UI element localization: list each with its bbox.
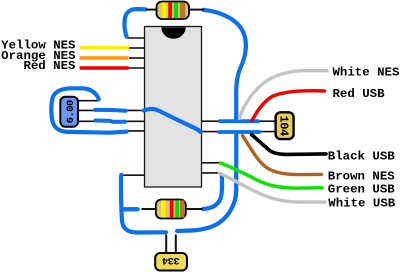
capacitor C2 334 body	[155, 253, 187, 271]
resistor R1 left lead	[146, 9, 157, 11]
label Brown NES	[328, 170, 395, 184]
wire blue node bar lower	[219, 130, 259, 134]
label White NES	[333, 66, 400, 80]
wire blue diagonal across IC	[144, 109, 200, 132]
wire red NES lead	[80, 66, 129, 69]
wire white NES (gray)	[240, 71, 328, 119]
label Red USB	[333, 87, 386, 101]
label White USB	[328, 197, 395, 211]
wire green USB	[221, 163, 323, 188]
svg-text:Red NES: Red NES	[23, 59, 76, 73]
IC right pin to capacitor C1 lower	[201, 131, 276, 133]
wire blue from R1 right lead down right side to node	[204, 10, 246, 121]
svg-text:Red USB: Red USB	[333, 87, 386, 101]
wire blue from R2 right lead up to IC pin	[203, 176, 222, 210]
wire yellow NES lead	[80, 46, 130, 49]
wire blue overlay on run A	[95, 108, 126, 113]
wire blue overlay on run B	[96, 121, 126, 122]
svg-text:6.00: 6.00	[65, 100, 77, 123]
wire blue vertical from node down to bottom loop	[177, 132, 236, 231]
wire red USB	[252, 91, 325, 121]
label Yellow NES	[1, 39, 76, 53]
capacitor C1 104 body	[276, 112, 294, 139]
svg-text:White USB: White USB	[328, 197, 395, 211]
wire blue loop around crystal X1	[51, 88, 126, 132]
IC U1 body	[145, 27, 202, 188]
label Black USB	[328, 150, 395, 164]
wire brown NES	[243, 136, 322, 175]
label Green USB	[328, 182, 395, 196]
resistor R1 right lead	[189, 9, 204, 11]
wire black USB	[252, 135, 327, 155]
capacitor C2 lead left	[165, 235, 167, 254]
wire orange NES lead	[80, 56, 129, 59]
svg-text:Black USB: Black USB	[328, 150, 395, 164]
wire bottom-left IC pin run C	[119, 130, 145, 132]
IC right pin stub green row	[201, 162, 221, 164]
pin 1 stub (IC left, top)	[127, 37, 145, 39]
crystal X1 body 6.00	[60, 97, 78, 127]
pin 2 stub yellow row	[129, 47, 145, 49]
wire blue bottom loop left part up to IC left pin	[121, 175, 166, 233]
svg-text:104: 104	[277, 115, 291, 136]
wire blue branch to R2 left lead	[123, 207, 138, 212]
resistor R2 left lead	[142, 208, 158, 210]
pin 3 stub orange row	[129, 57, 145, 59]
IC right pin stub gray row	[201, 172, 220, 174]
IC U1 pin-1 notch	[161, 27, 185, 39]
resistor R2 body	[156, 200, 186, 219]
capacitor C2 lead right	[175, 235, 177, 254]
label Red NES	[23, 59, 76, 73]
pin 4 stub red row	[129, 67, 146, 69]
svg-text:White NES: White NES	[333, 66, 400, 80]
wire blue from R1 left lead down to pin 1	[125, 9, 146, 37]
wire crystal to IC run A	[78, 109, 145, 111]
wire white USB (gray)	[220, 173, 326, 202]
resistor R2 right lead	[185, 208, 203, 210]
svg-text:Green USB: Green USB	[328, 182, 395, 196]
IC left pin stub bottom (to blue vertical)	[122, 174, 145, 176]
wire blue node bar upper	[220, 119, 258, 123]
crystal X1 top pin stub	[78, 100, 99, 102]
svg-text:334: 334	[162, 254, 180, 266]
resistor R1 body	[157, 2, 190, 20]
IC right pin to capacitor C1 upper	[201, 120, 276, 122]
wire crystal to IC run B	[78, 120, 145, 122]
label Orange NES	[1, 49, 76, 63]
